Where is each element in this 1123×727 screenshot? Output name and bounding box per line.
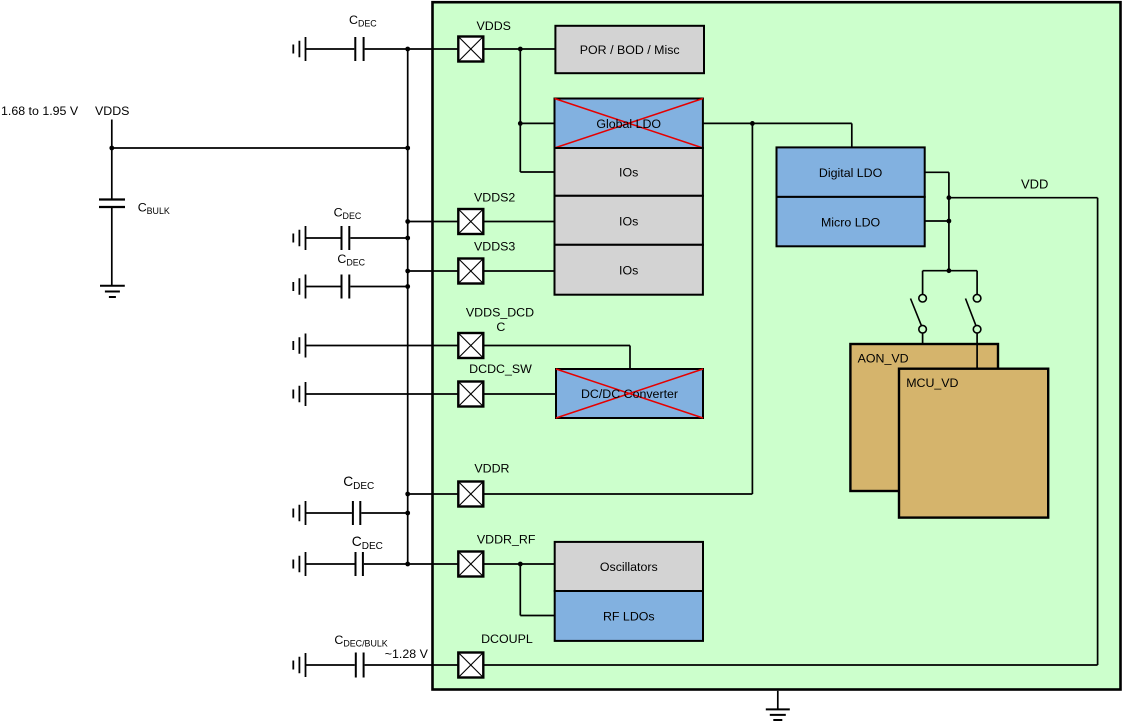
ground for VDDS_DCDC row [293,334,305,358]
pad VDDS [458,37,483,62]
wire DCOUPL pad to VDD vertical [483,664,1097,666]
svg-text:CDEC/BULK: CDEC/BULK [334,633,387,649]
wire ground to VDDS_DCDC pad [306,345,459,347]
svg-text:VDD: VDD [1021,177,1048,192]
capacitor CDEC (VDDS) [355,37,363,61]
wire VDDS horizontal to bus [112,147,408,149]
svg-text:Digital LDO: Digital LDO [819,166,883,180]
block POR / BOD / Misc [555,26,704,73]
svg-text:DC/DC Converter: DC/DC Converter [581,387,678,401]
wire VDDR riser [751,123,753,494]
wire Global LDO output [703,122,852,124]
svg-text:VDDS2: VDDS2 [474,191,515,205]
wire DCDC_SW pad to DC/DC converter [483,393,556,395]
capacitor CDEC (VDDR) [353,501,360,525]
svg-text:CDEC: CDEC [334,206,362,222]
wire stub to switch S2 [976,271,978,295]
junction bus row VDDS3 [405,269,410,274]
block MCU_VD power domain [899,369,1048,518]
svg-text:AON_VD: AON_VD [858,352,909,366]
wire ground to CDEC row VDDS3 [306,286,341,288]
svg-text:CDEC: CDEC [352,534,383,552]
block Global LDO (crossed out) [555,99,703,149]
junction bus row VDDR [405,492,410,497]
wire VDDR_RF branch to RF LDOs [520,564,554,616]
wire bus to VDDR pad [408,493,459,495]
junction at Global LDO branch [518,121,523,126]
wire ground to CDEC row VDDR [306,512,352,514]
svg-text:~1.28 V: ~1.28 V [385,647,429,661]
wire down to Digital LDO input [851,123,853,147]
wire VDD horizontal [949,197,1098,199]
wire ground to CDEC/BULK [306,664,355,666]
junction bus cap row VDDS2 [405,236,410,241]
wire CDEC to bus row VDDS [365,48,459,50]
ground below CBULK [100,286,125,297]
wire CDEC/BULK to DCOUPL pad [365,664,459,666]
capacitor CDEC (VDDS3) [342,275,350,299]
block IOs 1 [555,148,703,196]
junction Micro LDO output node [947,219,952,224]
svg-text:RF LDOs: RF LDOs [603,610,655,624]
wire VDDS_DCDC pad to DC/DC converter [483,346,630,370]
svg-text:POR / BOD / Misc: POR / BOD / Misc [580,43,680,57]
svg-text:MCU_VD: MCU_VD [906,376,958,390]
svg-text:C: C [496,320,505,334]
wire ground to CDEC row VDDR_RF [306,563,355,565]
wire to Global LDO input [520,122,554,124]
wire VDDR pad to riser [483,493,752,495]
svg-text:VDDS: VDDS [95,104,129,118]
wire CDEC to bus row VDDS2 [350,237,407,239]
capacitor CDEC (VDDS2) [342,226,350,250]
svg-text:VDDS3: VDDS3 [474,240,515,254]
block DC/DC Converter (crossed out) [556,369,703,418]
block Micro LDO [777,197,925,246]
junction bus cap row VDDS3 [405,284,410,289]
wire ground to CDEC row VDDS2 [306,237,341,239]
switch S1 (to AON_VD) [911,294,927,333]
wire switch feed bar [923,270,978,272]
ground for CDEC row VDDR_RF [293,552,305,576]
svg-text:CDEC: CDEC [349,13,377,29]
pad DCDC_SW [458,382,483,407]
svg-text:VDDR_RF: VDDR_RF [477,533,536,547]
wire VDDR_RF pad to oscillators [483,563,554,565]
svg-text:Global LDO: Global LDO [596,117,661,131]
svg-text:VDDR: VDDR [474,462,509,476]
svg-text:IOs: IOs [619,264,638,278]
junction VDDS internal [518,47,523,52]
junction bus cap row VDDR [405,511,410,516]
junction VDDS node [109,146,114,151]
wire CDEC to bus row VDDS3 [350,286,407,288]
wire Micro LDO output [925,220,949,222]
wire ground to CDEC row VDDS [306,48,355,50]
switch S2 (to MCU_VD) [966,294,981,333]
junction VDD node [947,195,952,200]
svg-text:CDEC: CDEC [337,252,365,268]
ground for CDEC row VDDR [293,501,305,525]
pad VDDS2 [458,209,483,234]
junction bus row VDDS2 [405,219,410,224]
pin label VDDS_DCDC (wrapped) [466,306,534,335]
svg-text:VDDS_DCD: VDDS_DCD [466,306,534,320]
svg-text:CDEC: CDEC [343,474,374,492]
wire Digital LDO output [925,172,949,197]
wire bus to VDDS3 pad [408,270,459,272]
block AON_VD power domain [850,344,998,491]
junction bus VDDS net [405,146,410,151]
wire VDDS stub down from label [111,120,113,200]
junction switch feed node [947,268,952,273]
svg-text:IOs: IOs [619,215,638,229]
svg-text:1.68 to 1.95 V: 1.68 to 1.95 V [1,104,79,118]
block Digital LDO [777,147,925,197]
wire VDDS pad to POR block [483,48,555,50]
wire stub to switch S1 [922,271,924,295]
wire VDDS3 pad to IOs 3 [483,270,554,272]
pad VDDR_RF [458,552,483,577]
ground for CDEC row VDDS2 [293,226,305,250]
wire ground to DCDC_SW pad [306,393,459,395]
junction Global LDO output node [750,121,755,126]
ground for CDEC row VDDS3 [293,275,305,299]
svg-text:DCDC_SW: DCDC_SW [469,362,532,376]
wire VDDS bus vertical [407,49,409,564]
capacitor CDEC/BULK [356,653,364,678]
ground for DCDC_SW row [293,382,305,406]
block IOs 2 [555,196,703,245]
wire VDD down to switches [948,198,950,271]
svg-text:CBULK: CBULK [138,201,170,217]
svg-text:DCOUPL: DCOUPL [481,632,533,646]
svg-text:Micro LDO: Micro LDO [821,215,881,229]
wire S2 to MCU_VD [976,333,978,369]
pad DCOUPL [458,653,483,678]
svg-text:IOs: IOs [619,166,638,180]
wire chip ground stub [777,691,779,709]
pad VDDS3 [458,259,483,284]
wire VDD vertical to DCOUPL [1097,198,1099,665]
junction bus row VDDS [405,47,410,52]
svg-text:Oscillators: Oscillators [600,560,658,574]
wire S1 to AON_VD [922,333,924,344]
svg-text:VDDS: VDDS [477,19,511,33]
wire CDEC to VDDR_RF pad [364,563,458,565]
pad VDDR [458,482,483,507]
wire CBULK to ground [111,207,113,286]
ground for CDEC row VDDS [293,37,305,61]
block Oscillators [555,542,703,591]
capacitor CBULK [99,200,125,208]
capacitor CDEC (VDDR_RF) [356,552,363,576]
ground chip (bottom) [766,709,790,720]
wire CDEC to bus row VDDR [361,512,407,514]
ground for CDEC/BULK row DCOUPL [293,653,305,677]
pad VDDS_DCDC [458,333,483,358]
junction bus row VDDR_RF [405,562,410,567]
junction VDDR_RF internal [518,562,523,567]
wire to IOs 1 input [520,171,554,173]
chip boundary (device outline) [433,2,1121,689]
block RF LDOs [555,591,703,641]
wire VDDS internal vertical [519,49,521,172]
block IOs 3 [555,245,703,295]
wire bus to VDDS2 pad [408,221,459,223]
wire VDDS2 pad to IOs 2 [483,221,554,223]
